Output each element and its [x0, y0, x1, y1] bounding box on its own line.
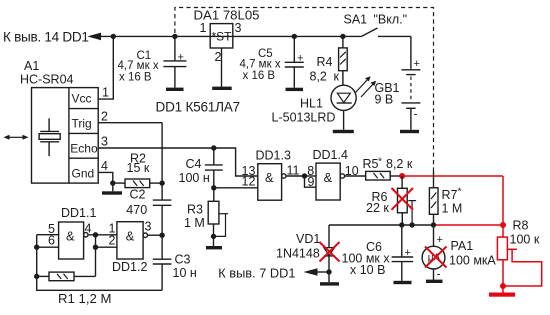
ultrasonic transducer symbol	[39, 118, 60, 156]
svg-text:R8: R8	[513, 218, 529, 232]
label SA1 "Вкл."	[344, 12, 408, 26]
svg-text:DD1.4: DD1.4	[313, 148, 348, 162]
junction Gnd/R2	[110, 180, 115, 185]
ground under GB1	[400, 130, 419, 133]
svg-text:2: 2	[215, 50, 222, 64]
svg-text:R7: R7	[442, 188, 458, 202]
junction on rail at C5	[292, 34, 297, 39]
diode VD1 (crossed out)	[324, 225, 335, 282]
junction R6 bottom	[399, 222, 404, 227]
wire pin6 input	[37, 246, 59, 248]
svg-text:+: +	[297, 53, 303, 65]
label DD1 К561ЛА7	[156, 100, 240, 115]
arrow to pin 7	[304, 268, 330, 276]
svg-text:1 М: 1 М	[184, 216, 205, 230]
pin 13 label	[242, 164, 256, 178]
red junction R5 out	[399, 173, 405, 179]
ground under R3	[206, 246, 222, 249]
capacitor C5	[285, 36, 304, 87]
wire: bottom oscillator rail	[37, 235, 162, 291]
capacitor C3	[153, 259, 172, 290]
svg-text:Vcc: Vcc	[72, 92, 92, 106]
label C6	[342, 240, 391, 277]
label DA1 78L05	[194, 8, 260, 23]
junction DD1.2 output	[159, 233, 164, 238]
svg-text:9: 9	[308, 175, 315, 189]
wire: +V top rail	[100, 35, 362, 37]
label C5	[240, 48, 281, 82]
pin 1 label	[109, 222, 116, 236]
svg-text:-: -	[437, 267, 441, 281]
svg-text:"Вкл.": "Вкл."	[374, 12, 408, 26]
junction C4 bottom	[211, 185, 216, 190]
wire: vertical net Trig/R2/C2/DD1.2out/C3	[161, 123, 163, 200]
svg-text:VD1: VD1	[296, 232, 320, 246]
svg-text:DD1 К561ЛА7: DD1 К561ЛА7	[156, 100, 240, 115]
ground under C1	[166, 88, 184, 91]
ground under C6	[394, 281, 412, 284]
label DD1.1	[61, 206, 96, 220]
svg-text:3: 3	[145, 220, 152, 234]
module A1 HC-SR04	[32, 88, 99, 184]
wire to DD1.3 pin12	[214, 187, 258, 189]
capacitor C2	[153, 200, 172, 259]
ground under PA1	[426, 280, 443, 283]
junction C4 top	[211, 145, 216, 150]
sound double arrow	[4, 135, 29, 140]
red wire: right vertical	[502, 176, 504, 237]
svg-text:100 мкА: 100 мкА	[449, 254, 496, 268]
wire pin4 output to DD1.2 inputs	[88, 235, 117, 247]
label R5* 8,2 к	[363, 157, 413, 172]
red wire R5 out to right	[402, 175, 503, 177]
svg-text:х 16 В: х 16 В	[243, 70, 276, 82]
junction R3 bottom	[211, 234, 216, 239]
junction R2 right	[159, 180, 164, 185]
pin 11 label	[287, 163, 300, 177]
ground under C5	[286, 88, 304, 91]
wire: Echo to DD1.3 pin13	[98, 148, 258, 176]
wire: meter node horizontal	[329, 224, 434, 226]
svg-text:HL1: HL1	[300, 97, 323, 111]
junction pin2	[93, 245, 98, 250]
svg-text:х 10 В: х 10 В	[350, 263, 385, 277]
svg-text:к: к	[334, 70, 340, 84]
pin 10 label	[345, 164, 359, 178]
svg-text:4: 4	[85, 222, 92, 236]
pin 8 label	[307, 164, 314, 178]
svg-text:2: 2	[109, 234, 116, 248]
ground under HL1	[333, 130, 354, 133]
pin 3 of DA1	[235, 21, 242, 35]
svg-text:&: &	[265, 170, 274, 185]
battery GB1	[401, 36, 420, 129]
svg-text:9 В: 9 В	[375, 93, 394, 107]
svg-text:8,2 к: 8,2 к	[386, 157, 413, 171]
ground under VD1	[320, 282, 339, 285]
label VD1 1N4148	[276, 232, 320, 261]
svg-text:&: &	[66, 229, 75, 244]
resistor R6 (trimmer, crossed out)	[398, 176, 417, 225]
switch SA1	[362, 28, 411, 36]
wire pin8/pin9 tie	[305, 176, 317, 187]
red ground under R8	[489, 293, 515, 297]
wire: Gnd pin4 down	[98, 172, 113, 183]
svg-text:HC-SR04: HC-SR04	[20, 72, 74, 86]
svg-text:*ST: *ST	[212, 30, 233, 44]
pin 2 label Trig	[101, 110, 108, 124]
svg-text:470: 470	[126, 203, 147, 217]
label К выв. 7 DD1	[218, 266, 295, 281]
label R1 1,2 М	[58, 291, 112, 306]
wire R1 right leg up	[95, 247, 97, 276]
svg-text:4,7 мк х: 4,7 мк х	[240, 59, 281, 71]
svg-text:4: 4	[101, 159, 108, 173]
red wire: meter node to R8 vertical	[434, 224, 504, 226]
red X over VD1	[320, 242, 340, 262]
svg-text:1: 1	[200, 21, 207, 35]
svg-text:C4: C4	[186, 157, 202, 171]
svg-text:&: &	[126, 229, 135, 244]
resistor R8 (red, trimmer)	[497, 237, 541, 292]
svg-text:DD1.1: DD1.1	[61, 206, 96, 220]
svg-text:10: 10	[345, 164, 359, 178]
svg-text:+: +	[414, 58, 420, 70]
meter PA1 (crossed out)	[422, 225, 445, 281]
label HL1 L-5013LRD	[272, 97, 336, 125]
red X over R6	[392, 188, 414, 210]
pin 1 of DA1	[200, 21, 207, 35]
junction DD1.3 out	[302, 173, 307, 178]
svg-text:3: 3	[235, 21, 242, 35]
pin 12 label	[242, 174, 256, 188]
svg-text:L-5013LRD: L-5013LRD	[272, 111, 336, 125]
wire: Vcc pin1 to rail	[98, 36, 113, 99]
svg-text:К выв. 7 DD1: К выв. 7 DD1	[218, 266, 295, 281]
svg-text:DD1.2: DD1.2	[112, 260, 147, 274]
capacitor C4	[205, 148, 223, 188]
svg-text:1 М: 1 М	[442, 202, 463, 216]
resistor R7	[429, 172, 438, 226]
svg-text:22 к: 22 к	[366, 201, 389, 215]
gate DD1.3	[258, 164, 305, 201]
svg-text:Gnd: Gnd	[72, 166, 95, 180]
svg-text:*: *	[458, 187, 462, 198]
svg-text:2: 2	[101, 110, 108, 124]
svg-text:3: 3	[101, 134, 108, 148]
pin 1 label Vcc	[102, 86, 109, 100]
svg-text:+: +	[178, 51, 184, 63]
resistor R1	[37, 272, 96, 281]
svg-text:R5: R5	[363, 157, 379, 171]
svg-text:*: *	[378, 157, 382, 168]
pin 2 label	[109, 234, 116, 248]
svg-text:12: 12	[242, 174, 256, 188]
pin 4 label	[85, 222, 92, 236]
pin 9 label	[308, 175, 315, 189]
gate DD1.4	[316, 163, 366, 200]
wire pin5 input	[37, 234, 59, 236]
svg-text:Trig: Trig	[72, 116, 92, 130]
label R6 22 к	[366, 190, 389, 215]
pin 4 label Gnd	[101, 159, 108, 173]
red junction meter wire	[500, 222, 506, 228]
svg-text:11: 11	[287, 163, 300, 177]
svg-text:&: &	[324, 170, 333, 185]
svg-text:R1 1,2 М: R1 1,2 М	[58, 291, 112, 306]
wire: Trig to DD1.2 output vertical	[98, 122, 162, 124]
svg-text:8,2: 8,2	[310, 70, 327, 84]
junction DD1.1 out	[93, 232, 98, 237]
svg-text:4,7 мк х: 4,7 мк х	[118, 60, 159, 72]
label PA1 100 мкА	[449, 239, 496, 268]
svg-text:-: -	[414, 107, 418, 121]
svg-text:+: +	[437, 234, 443, 246]
label C3 10 н	[173, 253, 197, 281]
junction on rail at Vcc drop	[111, 34, 116, 39]
svg-text:К выв. 14 DD1: К выв. 14 DD1	[3, 29, 89, 44]
svg-text:C3: C3	[175, 253, 191, 267]
junction R1 left	[34, 274, 39, 279]
label C2 470	[126, 188, 147, 218]
svg-text:100 к: 100 к	[510, 233, 540, 247]
pin 3 label Echo	[101, 134, 108, 148]
junction on rail at C1	[172, 34, 177, 39]
label GB1 9 В	[375, 81, 400, 107]
svg-text:C2: C2	[130, 188, 146, 202]
svg-text:Echo: Echo	[70, 141, 98, 155]
red junction R8 bottom	[500, 283, 506, 289]
svg-text:R3: R3	[187, 203, 203, 217]
svg-text:х 16 В: х 16 В	[119, 71, 152, 83]
pin 3 label	[145, 220, 152, 234]
svg-text:1: 1	[102, 86, 109, 100]
svg-text:A1: A1	[24, 59, 39, 73]
gate DD1.2	[117, 222, 162, 259]
voltage regulator DA1	[210, 24, 233, 48]
svg-text:DD1.3: DD1.3	[256, 149, 291, 163]
resistor R2	[113, 179, 162, 188]
label C1	[118, 50, 159, 84]
label DD1.2	[112, 260, 147, 274]
label R7* 1 М	[442, 187, 463, 216]
svg-text:10 н: 10 н	[173, 266, 197, 280]
label R3 1 М	[184, 203, 205, 231]
svg-text:+: +	[405, 247, 411, 259]
gate DD1.1	[59, 222, 88, 259]
capacitor C1	[163, 36, 186, 87]
LED HL1	[331, 76, 376, 130]
resistor R5	[366, 171, 402, 180]
dashed wire: battery plus to C1 node	[175, 8, 434, 172]
resistor R3	[208, 188, 228, 246]
pin 2 of DA1	[215, 48, 222, 87]
resistor R4	[339, 36, 348, 85]
svg-text:R4: R4	[317, 55, 333, 69]
junction on rail at R4	[340, 34, 345, 39]
label DD1.3	[256, 149, 291, 163]
junction R7 bottom	[431, 222, 436, 227]
node arrow to pin 14	[87, 33, 101, 41]
red X over PA1	[425, 247, 447, 268]
ground under DA1	[212, 87, 232, 90]
label R2 15 к	[127, 151, 150, 175]
svg-text:6: 6	[48, 234, 55, 248]
label C4 100 н	[179, 157, 210, 185]
label R8 100 к	[510, 218, 540, 246]
label A1 HC-SR04	[20, 59, 74, 86]
capacitor C6	[392, 225, 414, 281]
junction VD1 bottom	[326, 269, 331, 274]
svg-text:SA1: SA1	[344, 12, 368, 26]
ground at Gnd pin	[102, 183, 122, 195]
svg-text:PA1: PA1	[451, 239, 474, 253]
svg-text:100 н: 100 н	[179, 171, 210, 185]
junction pin6	[34, 245, 39, 250]
pin 5 label	[48, 222, 55, 236]
pin 6 label	[48, 234, 55, 248]
svg-text:15 к: 15 к	[127, 161, 150, 175]
svg-text:1N4148: 1N4148	[276, 247, 320, 261]
node: К выв. 14 DD1 label	[3, 29, 89, 44]
label R4 8,2 к	[310, 55, 340, 84]
junction R6 tap	[409, 222, 414, 227]
label DD1.4	[313, 148, 348, 162]
